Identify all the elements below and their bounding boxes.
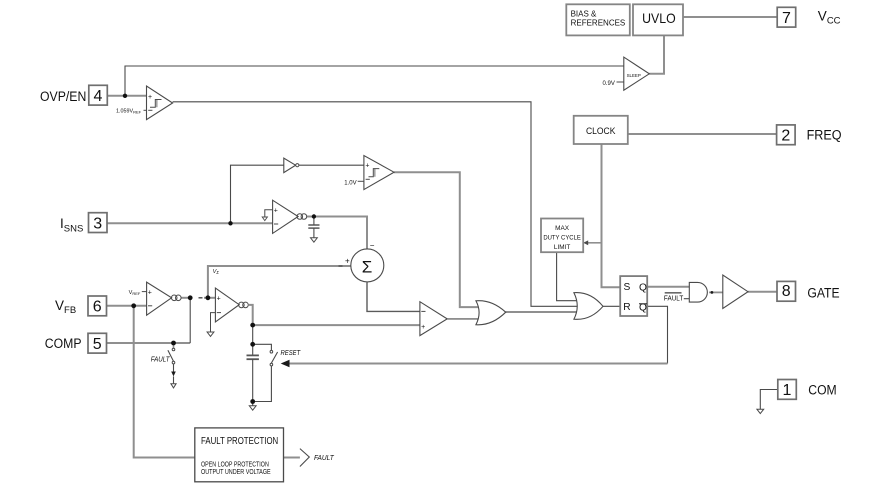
node COMP fault-switch junction	[171, 341, 176, 346]
block CLOCK	[574, 116, 628, 144]
svg-text:−: −	[370, 241, 375, 250]
ground under C1	[311, 238, 318, 242]
svg-text:DUTY CYCLE: DUTY CYCLE	[543, 234, 581, 241]
svg-text:+: +	[217, 295, 221, 302]
svg-text:+: +	[345, 257, 350, 266]
reset switch upper contact	[270, 350, 273, 353]
ground under C2	[249, 406, 256, 410]
svg-text:Σ: Σ	[362, 257, 373, 276]
wire pin1 COM to ground	[760, 390, 778, 410]
wire capacitor C2 to bottom node	[252, 359, 254, 401]
node ISNS junction	[228, 221, 232, 225]
wire amp2 output down to PWM comparator plus input	[249, 305, 420, 325]
svg-text:OVP/EN: OVP/EN	[40, 89, 86, 104]
comparator U5 current sense	[273, 200, 299, 233]
svg-text:Q: Q	[639, 282, 647, 293]
wire current-sense comparator output to sigma top	[307, 217, 367, 249]
fault output chevron	[300, 449, 309, 467]
pin 1 COM	[778, 380, 797, 400]
svg-text:RESET: RESET	[281, 348, 302, 357]
wire clock line to max duty cycle box	[587, 242, 602, 244]
pin 4 OVP/EN	[89, 85, 108, 105]
wire capacitor C1 to ground	[313, 228, 315, 238]
svg-text:FREQ: FREQ	[807, 127, 842, 142]
svg-text:FAULT PROTECTION: FAULT PROTECTION	[201, 436, 278, 447]
capacitor C1 plates	[308, 224, 319, 226]
wire OVP comparator output long run down to OR2	[173, 102, 580, 306]
RESET arrowhead	[281, 360, 290, 367]
wire pin5 COMP	[107, 342, 191, 344]
wire PWM comparator output to OR1	[447, 318, 482, 320]
wire FAULT switch branch from COMP line	[173, 343, 175, 348]
wire pin6 VFB to error amp	[107, 305, 147, 307]
pin 8 GATE	[777, 281, 796, 301]
wire ISNS junction up to inverter input	[231, 165, 284, 223]
svg-text:1.059VREF: 1.059VREF	[116, 109, 142, 115]
reset switch lever	[271, 352, 277, 363]
dot on AND output wire	[711, 291, 714, 294]
svg-text:UVLO: UVLO	[642, 10, 676, 26]
wire VFB junction down to fault protection box	[134, 306, 195, 458]
svg-text:+: +	[148, 289, 152, 296]
wire V-sigma from error amp output up to sigma left input	[208, 266, 351, 298]
capacitor C2 plates	[247, 354, 259, 356]
block BIAS & REFERENCES	[566, 4, 630, 35]
wire 1.0V comparator output down to OR1	[394, 172, 482, 307]
ground under pin1	[757, 409, 764, 413]
wire max duty cycle box down to OR2	[557, 252, 580, 301]
fault switch lower contact	[172, 361, 175, 364]
svg-text:LIMIT: LIMIT	[554, 244, 570, 251]
wire COMP up to error amp output	[189, 298, 191, 343]
wire sigma output down to PWM comparator minus input	[367, 283, 420, 312]
wire CLOCK to pin2	[628, 133, 777, 135]
inverter U3	[284, 158, 296, 173]
pin 2 FREQ	[777, 125, 796, 145]
svg-text:SLEEP: SLEEP	[627, 73, 641, 78]
svg-text:FAULT: FAULT	[314, 453, 334, 462]
wire CLOCK down to latch S input	[602, 144, 621, 287]
comparator U1 OVP schmitt	[147, 86, 173, 120]
svg-text:+: +	[148, 94, 152, 101]
svg-text:1.0V: 1.0V	[344, 180, 356, 186]
wire error amp output segment with dash	[181, 297, 190, 299]
comparator U4 1.0V schmitt	[364, 156, 394, 190]
node VFB junction	[131, 303, 136, 308]
node capacitor ground junction	[250, 399, 255, 404]
error amp U6	[147, 282, 172, 315]
svg-text:GATE: GATE	[807, 285, 839, 300]
svg-text:6: 6	[93, 299, 102, 316]
SR latch U9	[620, 276, 647, 316]
pin 3 ISNS	[89, 213, 108, 233]
svg-text:R: R	[623, 302, 630, 313]
reset switch lower contact	[270, 363, 273, 366]
wire OVP junction up to top rail	[125, 66, 624, 96]
double circle at U7 output	[239, 302, 245, 308]
pin 7 VCC	[777, 7, 796, 27]
output buffer U10	[723, 275, 748, 309]
OR gate G1	[476, 301, 506, 325]
wire reset switch branch	[253, 344, 272, 350]
AND gate G3	[689, 282, 707, 302]
svg-text:+: +	[421, 324, 425, 331]
wire OR2 output to latch R input	[603, 305, 620, 307]
double circle at U5 output	[297, 214, 303, 220]
node pin4 junction	[123, 94, 127, 98]
wire AND gate FAULT stub	[684, 298, 689, 300]
wire capacitor branch under current-sense output	[313, 217, 315, 225]
svg-text:BIAS &: BIAS &	[571, 9, 597, 18]
block MAX DUTY CYCLE LIMIT	[541, 219, 583, 253]
fault switch upper contact	[172, 348, 175, 351]
svg-text:FAULT: FAULT	[664, 293, 684, 302]
svg-text:COMP: COMP	[45, 336, 82, 351]
double circle at U6 output	[171, 295, 177, 301]
svg-text:2: 2	[781, 128, 790, 145]
reference hook at U5 plus input	[265, 210, 273, 217]
pin 5 COMP	[88, 333, 107, 353]
pin 6 VFB	[88, 296, 107, 316]
svg-text:CLOCK: CLOCK	[586, 126, 616, 137]
node error amp output junction A	[188, 295, 193, 300]
wire COMP capacitor branch vertical	[252, 325, 254, 355]
node reset switch junction	[250, 342, 255, 347]
svg-text:VΣ: VΣ	[213, 269, 220, 275]
wire reset switch to ground node	[253, 366, 272, 402]
summing node sigma	[351, 249, 384, 282]
svg-text:1: 1	[783, 382, 792, 399]
svg-text:MAX: MAX	[555, 225, 570, 232]
OR gate G2	[574, 293, 603, 320]
node error amp output junction B	[206, 295, 211, 300]
svg-text:COM: COM	[808, 382, 836, 397]
node current-sense output junction	[312, 214, 316, 218]
svg-text:5: 5	[93, 336, 102, 353]
svg-text:3: 3	[93, 215, 102, 232]
svg-text:7: 7	[782, 10, 791, 27]
svg-text:+: +	[274, 207, 278, 214]
svg-text:+: +	[365, 163, 369, 170]
svg-text:8: 8	[782, 283, 791, 300]
fault branch solid arrow	[171, 372, 176, 377]
arrowhead into max duty cycle box	[583, 240, 588, 245]
node amp2 output junction	[250, 323, 255, 328]
svg-text:0.9V: 0.9V	[603, 81, 615, 87]
svg-text:REFERENCES: REFERENCES	[571, 18, 626, 27]
block FAULT PROTECTION	[195, 428, 284, 482]
wire sleep comparator output up to UVLO	[649, 35, 664, 73]
ground under fault switch	[171, 384, 176, 388]
wire inverter output to 1.0V comparator	[299, 164, 364, 166]
wire OR1 output to OR2	[506, 311, 580, 313]
svg-text:FAULT: FAULT	[151, 355, 171, 364]
reference hook at U7 lower input	[211, 313, 216, 332]
svg-text:4: 4	[94, 88, 103, 105]
wire fault protection output	[284, 457, 300, 459]
PWM comparator U8	[420, 302, 447, 336]
svg-text:S: S	[624, 282, 631, 293]
fault switch lever	[168, 350, 174, 361]
wire buffer to pin8	[748, 291, 777, 293]
wire latch Q to AND gate	[647, 286, 689, 288]
wire RESET line from latch Qbar	[647, 306, 667, 363]
wire fault switch stem	[173, 364, 175, 372]
wire UVLO to pin7	[683, 16, 777, 18]
block UVLO	[633, 4, 683, 35]
wire pin3 ISNS to current-sense comparator	[107, 222, 273, 224]
wire pin4 to OVP comparator input	[107, 95, 147, 97]
wire AND output to buffer	[709, 291, 723, 293]
svg-text:VREF: VREF	[129, 290, 141, 296]
comparator U2 sleep	[624, 57, 650, 90]
amp U7	[215, 288, 239, 322]
svg-text:OUTPUT UNDER VOLTAGE: OUTPUT UNDER VOLTAGE	[201, 467, 271, 476]
